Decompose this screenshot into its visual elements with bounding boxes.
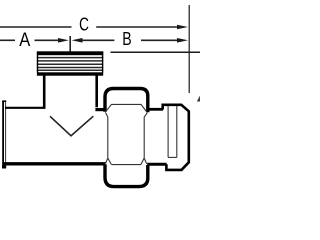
arrowhead B left [72, 38, 83, 43]
tick between A and B [69, 36, 71, 53]
svg-text:A: A [19, 30, 30, 51]
flange inner line 1 [167, 106, 169, 157]
flow chevron V [50, 116, 93, 136]
flange inner chamfer line [168, 156, 177, 158]
branch neck left edge [43, 76, 46, 108]
nut chamfer bottom line [111, 164, 141, 166]
left end top cap [2, 100, 6, 102]
arrowhead C right [177, 25, 188, 30]
nut chamfer top line [106, 104, 147, 112]
body top line left of branch [5, 107, 46, 109]
body bottom line [2, 162, 105, 165]
svg-text:B: B [122, 28, 131, 49]
thread stripes [37, 58, 103, 71]
arrowhead A right [58, 38, 69, 43]
dimension line D (label off-image right) [111, 51, 201, 53]
extension line at outlet face [188, 5, 190, 93]
body top line right of branch [95, 108, 106, 111]
flange inner line 2 [176, 106, 178, 157]
nut facet left line [105, 112, 111, 164]
svg-text:C: C [79, 14, 89, 35]
thread side edges [38, 52, 103, 73]
dimension line A [0, 39, 59, 41]
thread shoulder bar [37, 72, 103, 75]
left end bottom cap [2, 166, 6, 169]
union nut outline [105, 89, 148, 187]
dimension line B [81, 39, 178, 41]
arrowhead B right [177, 38, 188, 43]
outlet collar top [147, 108, 163, 111]
nut facet right line [141, 113, 147, 165]
branch neck right edge [95, 76, 98, 108]
tailpiece flange outline [163, 105, 189, 170]
left end inner line [5, 102, 7, 166]
outlet collar bottom [147, 163, 166, 166]
dimension line C [0, 26, 178, 28]
thread top bar [37, 51, 103, 55]
left end outer face [2, 101, 4, 169]
edge artifact wedge [197, 96, 200, 102]
